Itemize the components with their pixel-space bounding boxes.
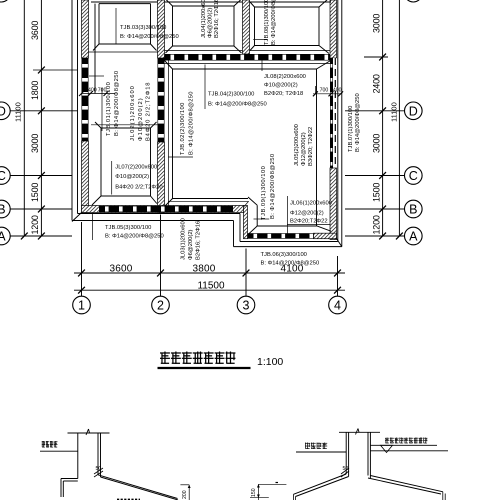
svg-text:B2Φ20;T2Φ22: B2Φ20;T2Φ22 [290,219,328,225]
svg-text:B: Φ14@200/Φ8@250: B: Φ14@200/Φ8@250 [270,153,276,219]
svg-text:4100: 4100 [280,264,303,275]
section right: level lines [370,444,437,446]
outer foundation edge lines [77,0,79,214]
section right: ground line [296,451,346,453]
svg-text:TJB.03(3)300/100: TJB.03(3)300/100 [120,25,166,31]
svg-text:JL05(2)200x600: JL05(2)200x600 [294,124,300,166]
svg-text:B: Φ14@200/Φ8@250: B: Φ14@200/Φ8@250 [271,0,277,45]
svg-text:3000: 3000 [372,134,382,153]
svg-text:3000: 3000 [30,134,40,153]
bottom axis bubbles [73,296,91,314]
svg-text:TJB.02(2)300/100: TJB.02(2)300/100 [180,102,186,155]
svg-text:3: 3 [243,299,250,313]
svg-text:B4Φ20 2/2;T2Φ18: B4Φ20 2/2;T2Φ18 [146,82,152,141]
svg-text:TJB.04(2)300/100: TJB.04(2)300/100 [208,92,254,98]
svg-text:B: Φ14@200/Φ8@250: B: Φ14@200/Φ8@250 [114,70,120,136]
big room bottom edge line [168,200,248,202]
svg-text:1500: 1500 [372,183,382,202]
svg-text:200: 200 [182,490,188,499]
svg-text:TJB.09(1)300/100: TJB.09(1)300/100 [261,166,267,220]
svg-text:11100: 11100 [390,102,399,122]
svg-text:2400: 2400 [372,74,382,93]
svg-text:1200: 1200 [30,215,40,234]
svg-text:Φ10@200(2): Φ10@200(2) [264,83,298,89]
section left: wall label [42,441,58,447]
svg-text:TJB.01(1)300/100: TJB.01(1)300/100 [106,82,112,136]
wall axis4 (V4) [330,0,337,58]
small dim 400/700 left [82,93,116,95]
svg-text:1: 1 [78,299,85,313]
svg-text:B3Φ20; T2Φ22: B3Φ20; T2Φ22 [308,127,314,166]
svg-text:3600: 3600 [109,264,132,275]
big room edge lines [165,63,332,65]
big room frame [173,68,317,70]
bottom dim chain [74,272,345,274]
svg-text:JL03(1)200x600: JL03(1)200x600 [181,218,187,260]
section left: footing slope [98,475,178,499]
svg-text:C: C [0,169,6,183]
section right: right slope [370,476,443,492]
leader TJB02 [169,156,194,158]
svg-text:JL08(2)200x600: JL08(2)200x600 [264,74,306,80]
bottom axis extension lines [81,222,83,296]
svg-text:B2Φ16; T2Φ16: B2Φ16; T2Φ16 [196,221,202,260]
break mark [86,429,89,435]
right axis extension lines [364,56,388,58]
beam band axis-Er (H1 JL08) [165,54,331,61]
svg-text:400: 400 [88,88,97,94]
room T1 frame [99,3,151,5]
svg-text:B: Φ14@200/Φ8@250: B: Φ14@200/Φ8@250 [189,91,195,155]
room T3 frame [255,6,320,8]
svg-text:1500: 1500 [30,183,40,202]
svg-text:B4Φ20 2/2;T2Φ20: B4Φ20 2/2;T2Φ20 [115,185,162,191]
svg-text:Φ10@200(2): Φ10@200(2) [138,97,144,141]
section left: step [61,478,78,480]
svg-text:1200: 1200 [372,215,382,234]
svg-text:B: Φ14@200/Φ8@250: B: Φ14@200/Φ8@250 [105,234,164,240]
section right: top line [339,431,380,433]
svg-text:1800: 1800 [30,81,40,100]
svg-text:TJB.07(1)300/100: TJB.07(1)300/100 [348,106,354,152]
svg-text:B: Φ14@200/Φ8@250: B: Φ14@200/Φ8@250 [208,102,267,108]
right dim chain [382,0,384,236]
svg-text:A: A [409,230,418,244]
section left: wall lines [77,433,79,479]
svg-text:JL02(1)200x600: JL02(1)200x600 [130,85,136,141]
wall axis1 (V1) [82,0,89,58]
small mark [276,482,279,484]
svg-text:B2Φ20; T2Φ18: B2Φ20; T2Φ18 [264,91,303,97]
section left: top line [68,432,110,434]
svg-text:C: C [409,169,418,183]
wall axis3 top (V3) [243,0,250,54]
left axis extension lines [10,110,77,112]
svg-text:JL06(1)200x600: JL06(1)200x600 [290,201,332,207]
section right: left slope [294,474,347,494]
left dim chain [40,0,42,236]
section right: wall lines [345,432,347,474]
svg-text:B: Φ14@200/Φ8@250: B: Φ14@200/Φ8@250 [355,93,361,152]
svg-text:TJB.06(3)300/100: TJB.06(3)300/100 [261,252,307,258]
title pseudo-CJK [160,352,235,364]
svg-text:2: 2 [157,299,164,313]
svg-text:1:100: 1:100 [257,356,283,368]
middle-left room M1 frame [91,124,158,126]
section left: ground line [40,450,78,452]
cut text bottom left detail [117,498,140,500]
svg-text:700: 700 [320,88,329,94]
small dim 700/400 right [313,93,342,95]
svg-text:TJB.05(3)300/100: TJB.05(3)300/100 [105,225,151,231]
big room frame mitres [165,61,173,70]
svg-text:B: B [0,203,6,217]
svg-text:Φ6@200(2): Φ6@200(2) [188,229,194,260]
beam dashed line right wall [334,58,336,168]
level triangle [381,445,393,452]
svg-text:3600: 3600 [30,21,40,40]
svg-text:B2Φ16; T2Φ16: B2Φ16; T2Φ16 [214,0,220,38]
svg-text:Φ10@200(2): Φ10@200(2) [115,174,149,180]
svg-text:Φ12@200(2): Φ12@200(2) [290,211,324,217]
svg-text:Φ12@200(2): Φ12@200(2) [301,132,307,166]
svg-text:3000: 3000 [372,14,382,33]
top rooms edge line [91,1,158,3]
svg-text:Φ6@200(2): Φ6@200(2) [208,7,214,38]
room T2 frame [173,5,235,7]
svg-text:11100: 11100 [14,102,23,122]
svg-text:JL04(1)200x600: JL04(1)200x600 [201,0,207,38]
svg-text:B: Φ14@200/Φ8@250: B: Φ14@200/Φ8@250 [120,34,179,40]
svg-text:TJB.08(1)300/100: TJB.08(1)300/100 [264,0,270,45]
label leaders [115,8,117,44]
outer corner mitre bottom-right [337,239,342,247]
svg-text:3800: 3800 [192,264,215,275]
wall axis2 (V2) [158,0,165,58]
svg-text:D: D [0,104,6,118]
section left: 200 dim [188,485,190,500]
svg-text:4: 4 [334,299,341,313]
svg-text:11500: 11500 [197,281,225,292]
svg-text:B: B [409,203,417,217]
svg-text:A: A [0,230,6,244]
bottom wall band right (H3) [248,233,314,239]
top cut bubbles [0,0,10,2]
section right: 150 dim [257,484,259,500]
left axis bubbles [0,102,10,120]
right axis bubbles [405,102,423,120]
svg-text:JL07(2)200x600: JL07(2)200x600 [115,165,157,171]
outer corner mitre bottom-left [72,213,82,222]
svg-text:400: 400 [333,88,342,94]
title underline [158,367,251,369]
bottom wall band left (H2) [82,206,244,213]
step wall (V5) [244,206,248,239]
svg-text:D: D [409,104,418,118]
svg-text:150: 150 [251,488,257,497]
